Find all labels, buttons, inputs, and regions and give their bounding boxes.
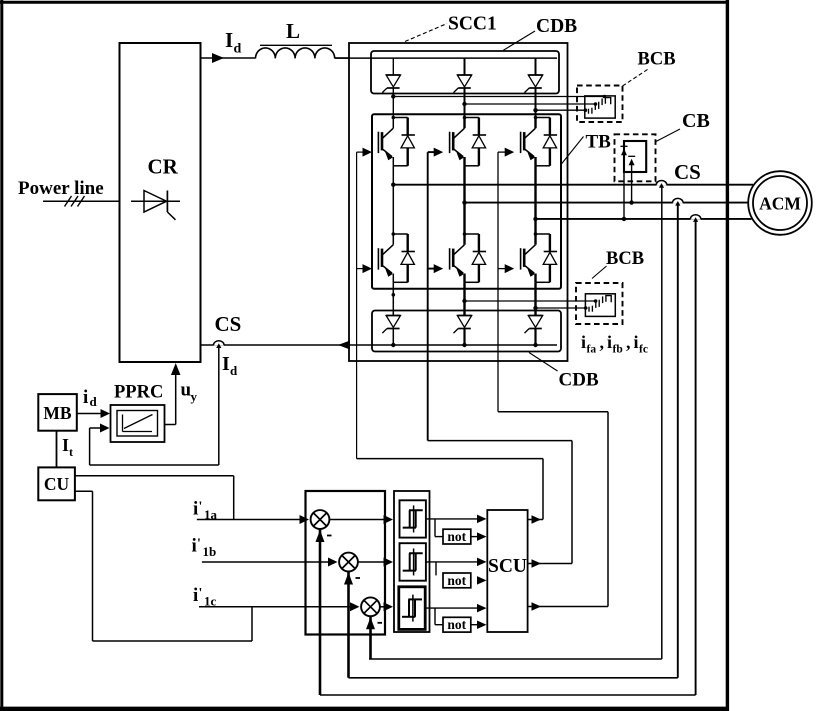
svg-text:CDB: CDB	[536, 16, 577, 37]
svg-text:SCC1: SCC1	[448, 14, 497, 35]
svg-text:1c: 1c	[204, 594, 217, 609]
svg-text:': '	[199, 500, 203, 515]
svg-text:i: i	[193, 585, 198, 606]
svg-text:d: d	[90, 394, 98, 409]
svg-text:Power line: Power line	[18, 178, 104, 199]
svg-text:CU: CU	[44, 474, 70, 494]
svg-text:d: d	[234, 42, 242, 57]
svg-text:i: i	[192, 536, 197, 557]
svg-text:CS: CS	[674, 160, 701, 184]
svg-text:I: I	[225, 28, 233, 52]
svg-text:i: i	[83, 387, 88, 408]
svg-text:not: not	[447, 529, 466, 544]
svg-text:MB: MB	[43, 403, 72, 423]
svg-text:CB: CB	[682, 110, 710, 132]
svg-text:TB: TB	[586, 132, 612, 153]
svg-text:d: d	[230, 363, 238, 378]
svg-text:y: y	[191, 389, 198, 404]
svg-text:i: i	[193, 499, 198, 520]
svg-text:SCU: SCU	[488, 556, 527, 577]
svg-text:fb: fb	[613, 344, 623, 356]
svg-text:not: not	[447, 573, 466, 588]
svg-text:i: i	[634, 332, 639, 352]
svg-text:BCB: BCB	[638, 50, 676, 70]
svg-text:CS: CS	[215, 312, 242, 336]
svg-text:,: ,	[600, 332, 605, 352]
svg-text:1b: 1b	[203, 544, 217, 559]
svg-text:t: t	[69, 445, 73, 459]
svg-text:PPRC: PPRC	[114, 383, 163, 403]
svg-text:fa: fa	[587, 344, 597, 356]
svg-text:fc: fc	[639, 344, 648, 356]
svg-text:,: ,	[626, 332, 631, 352]
svg-text:': '	[199, 586, 203, 601]
svg-text:i: i	[581, 332, 586, 352]
svg-text:BCB: BCB	[606, 249, 644, 269]
svg-text:1a: 1a	[204, 507, 218, 522]
svg-text:I: I	[62, 435, 69, 455]
svg-text:I: I	[222, 353, 230, 375]
svg-text:i: i	[607, 332, 612, 352]
svg-text:CDB: CDB	[559, 370, 599, 391]
svg-text:': '	[197, 537, 201, 552]
svg-text:CR: CR	[148, 155, 179, 179]
svg-text:not: not	[447, 617, 466, 632]
svg-text:L: L	[286, 19, 300, 43]
svg-text:ACM: ACM	[759, 194, 801, 214]
